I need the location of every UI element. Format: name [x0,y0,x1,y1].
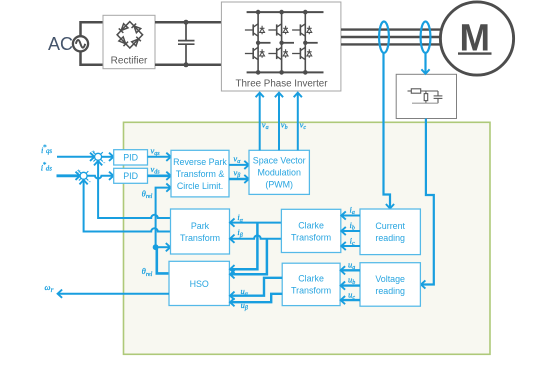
wire J2 to PID2 [87,176,113,179]
wire AC top [81,22,104,36]
svg-text:Reverse Park: Reverse Park [173,157,227,167]
wire theta branch to park transform [156,246,171,248]
AC source V1 [73,36,88,51]
svg-text:Current: Current [375,221,405,231]
wire ua [341,269,360,271]
wire theta rel to reverse park [156,188,171,248]
rectifier box [103,15,155,68]
wire input iqs* [57,156,94,158]
wire i beta branch to HSO [230,239,267,275]
svg-text:+: + [77,168,81,175]
svg-text:PID: PID [123,171,138,181]
phase wire c [341,43,441,45]
wire omega r output [58,293,169,295]
transistor leg 1 [245,10,271,75]
svg-text:Circle Limit.: Circle Limit. [177,181,223,191]
svg-text:Park: Park [191,221,210,231]
reverse park transform box [171,150,229,197]
svg-text:Transform: Transform [291,285,331,295]
svg-text:+: + [91,149,95,156]
svg-text:ωr: ωr [45,282,54,294]
wire id feedback [84,180,171,232]
svg-text:Modulation: Modulation [257,168,300,178]
svg-text:reading: reading [375,233,405,243]
wire ia [341,215,360,217]
capacitor C2 [437,91,439,96]
wire u beta clarke to HSO [230,294,282,302]
PID box 2 [114,168,148,183]
wire DC bottom [155,64,221,67]
wire ic [341,245,360,247]
wire ub [341,284,360,286]
wire va to inverter [259,93,261,151]
wire PID2 to reverse park, vds [148,175,171,178]
capacitor C1 [178,22,195,65]
wire i beta clarke to park [230,235,281,238]
wire u alpha clarke to HSO [230,278,282,296]
svg-text:reading: reading [375,286,405,296]
HSO box [169,261,229,305]
three phase inverter box [221,2,341,91]
wire v alpha [229,164,249,166]
svg-text:HSO: HSO [190,279,209,289]
svg-text:Transform &: Transform & [176,169,225,179]
rectifier diode bridge icon [117,22,143,48]
software boundary box [124,122,491,354]
phase wire b [341,36,441,38]
transistor leg 2 [268,10,294,75]
wire DC top [155,21,221,24]
wire input ids* [57,174,80,177]
clarke transform box lower [282,263,340,305]
wire AC bottom [81,51,104,64]
voltage reading box [360,263,420,307]
svg-text:PID: PID [123,152,138,162]
clarke transform box upper [281,209,340,252]
motor M [440,2,513,75]
svg-text:Three Phase Inverter: Three Phase Inverter [236,79,329,90]
inverter top rail [247,11,324,13]
wire i alpha branch to HSO [230,223,257,270]
voltage sense RC box [396,74,456,118]
wire v beta [229,178,249,181]
svg-text:(PWM): (PWM) [265,179,293,189]
park transform box [171,209,230,254]
wire uc [341,299,360,301]
wire J1 to PID1 [102,156,114,158]
inverter bottom rail [247,71,324,73]
wire i alpha clarke to park [230,222,281,224]
svg-text:Transform: Transform [180,233,220,243]
summing junction J1 [91,149,106,167]
svg-text:Clarke: Clarke [298,220,324,230]
PID box 1 [114,150,148,165]
resistor R2 [425,91,427,94]
current sensor ellipse 1 [379,22,389,53]
current reading box [360,209,420,255]
svg-text:Transform: Transform [291,232,331,242]
svg-text:Voltage: Voltage [375,274,405,284]
wire sensor2 to RC box [424,53,426,74]
svg-text:Space Vector: Space Vector [253,156,306,166]
current sensor ellipse 2 [421,22,431,53]
junction dot theta [153,244,159,250]
wire ib [341,230,360,232]
wire vc to inverter [297,93,299,151]
svg-text:Rectifier: Rectifier [111,56,148,67]
gnd rail [412,102,438,104]
wire vb to inverter [278,93,280,151]
junction dot DC bottom [184,62,189,67]
svg-text:Clarke: Clarke [298,273,324,283]
junction dot DC top [184,20,189,25]
summing junction J2 [77,168,92,186]
wire sensor1 to current reading [384,53,391,209]
transistor leg 3 [292,10,318,75]
phase wire a [341,28,441,30]
wire HSO theta out [157,247,169,273]
wire iq feedback [98,161,170,218]
wire RC box to voltage reading [421,119,434,285]
wire PID1 to reverse park, vqs [148,156,171,158]
space vector modulation box [249,150,309,194]
resistor R1 [408,90,412,92]
svg-text:AC: AC [48,34,73,54]
